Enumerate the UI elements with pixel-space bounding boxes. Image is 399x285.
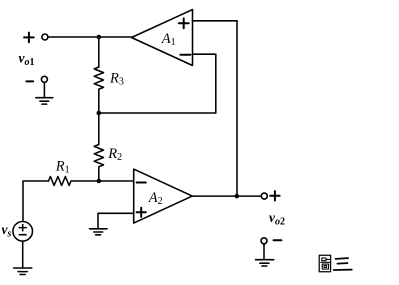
wire vs to ground: [22, 241, 24, 268]
wire vs to R1: [23, 181, 49, 222]
resistor R2: [94, 113, 103, 181]
wire A1 - input feedback: [99, 54, 216, 113]
ground G4: [14, 268, 32, 275]
svg-text:R2: R2: [107, 146, 122, 163]
op-amp A2 plus pin sign: [137, 208, 146, 217]
svg-text:vs: vs: [2, 222, 12, 240]
ground G3: [256, 260, 274, 266]
wire A2 + input to ground: [98, 213, 134, 229]
op-amp A2 minus pin sign: [137, 182, 146, 184]
source vs minus sign: [19, 234, 26, 236]
node D: [235, 194, 240, 199]
node B: [97, 111, 102, 116]
wire A1 + input to right column: [193, 20, 238, 22]
svg-text:vo2: vo2: [269, 210, 285, 228]
terminal vo2- circle: [261, 238, 267, 244]
svg-text:vo1: vo1: [19, 51, 35, 69]
terminal vo1 plus sign: [24, 33, 34, 43]
source vs plus sign: [19, 227, 26, 229]
terminal vo1- circle: [41, 76, 47, 82]
svg-text:R3: R3: [109, 70, 124, 87]
caption 圖三 character 三: [334, 258, 352, 270]
node A: [97, 35, 102, 40]
wire A2 output to vo2+: [192, 195, 261, 197]
resistor R1: [49, 177, 99, 186]
wire vo1- circle to ground: [43, 82, 45, 97]
wire vo2- circle to ground: [263, 244, 265, 260]
svg-text:R1: R1: [55, 158, 70, 175]
terminal vo2 minus sign: [274, 239, 282, 241]
wire node A to op-amp A1 output: [99, 36, 132, 38]
ground G2: [90, 229, 108, 235]
caption 圖三 character 圖: [319, 255, 330, 272]
wire right column down to node D: [236, 21, 238, 196]
terminal vo1+ circle: [42, 34, 48, 40]
op-amp A1: [132, 10, 193, 66]
op-amp A1 minus pin sign: [180, 54, 190, 56]
source vs: [13, 222, 33, 242]
wire node C to A2 - input: [99, 180, 134, 182]
op-amp A2: [134, 169, 193, 223]
resistor R3: [94, 37, 103, 113]
terminal vo1 minus sign: [26, 80, 33, 82]
ground G1: [36, 98, 53, 104]
terminal vo2 plus sign: [270, 191, 279, 200]
node C: [97, 179, 102, 184]
op-amp A1 plus pin sign: [179, 18, 189, 28]
wire vo1+ to node A: [48, 36, 99, 38]
terminal vo2+ circle: [261, 193, 267, 199]
